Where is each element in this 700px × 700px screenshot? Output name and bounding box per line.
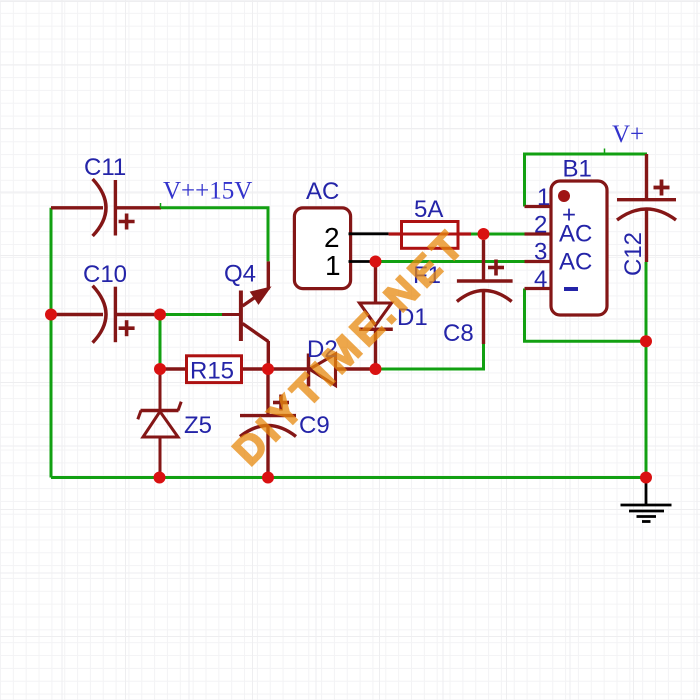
svg-text:Q4: Q4 xyxy=(224,261,256,288)
bridge rectifier B1 xyxy=(551,181,607,315)
connector AC xyxy=(294,208,350,289)
svg-text:B1: B1 xyxy=(563,156,592,183)
wire C8 bottom loop xyxy=(376,343,484,369)
capacitor C8 xyxy=(457,240,513,344)
junction R15 right xyxy=(262,363,274,375)
capacitor C12 xyxy=(617,154,676,262)
svg-text:AC: AC xyxy=(306,178,339,205)
svg-text:Z5: Z5 xyxy=(184,412,212,439)
svg-text:C11: C11 xyxy=(84,154,126,181)
transistor Q4 xyxy=(222,261,268,369)
junction ground node xyxy=(640,472,652,484)
svg-text:AC: AC xyxy=(559,249,592,276)
junction AC pin1 node xyxy=(370,256,382,268)
pin 1 lead xyxy=(525,205,552,208)
svg-text:5A: 5A xyxy=(414,196,443,223)
svg-text:C12: C12 xyxy=(620,232,647,276)
junction C10 right xyxy=(154,309,166,321)
wire bottom rail xyxy=(51,476,646,479)
svg-text:C8: C8 xyxy=(443,320,474,347)
svg-text:V+: V+ xyxy=(612,121,644,148)
wire AC pin1 black xyxy=(349,260,376,263)
junction R15 left xyxy=(154,363,166,375)
diode D1 xyxy=(359,262,393,370)
junction C10 left xyxy=(45,309,57,321)
wire AC pin2 black xyxy=(349,232,389,235)
wire B1 pin1 to V+ xyxy=(525,154,648,207)
junction C9 bottom xyxy=(262,472,274,484)
zener diode Z5 xyxy=(138,369,181,478)
wire top rail green xyxy=(161,208,268,262)
wire AC1 to B1 pin3 xyxy=(376,260,525,263)
pin 3 lead xyxy=(525,260,552,263)
wire B1 pin4 loop xyxy=(525,289,647,342)
resistor R15 xyxy=(160,367,187,370)
wire C10 to Q4 base xyxy=(160,313,222,316)
fuse F1 xyxy=(389,222,471,249)
wire net tick V+ xyxy=(604,149,606,155)
capacitor C11 xyxy=(51,179,161,236)
svg-text:1: 1 xyxy=(325,250,341,281)
wire C12 down to ground xyxy=(645,262,648,478)
junction B1 pin4 loop xyxy=(640,335,652,347)
svg-text:V++15V: V++15V xyxy=(163,178,252,205)
wire fuse to B1 pin2 xyxy=(471,233,525,236)
pin 2 lead xyxy=(525,232,552,235)
svg-text:R15: R15 xyxy=(190,358,234,385)
wire net tick V++15V xyxy=(160,203,162,208)
junction fuse output xyxy=(478,228,490,240)
svg-text:AC: AC xyxy=(559,221,592,248)
capacitor C10 xyxy=(51,286,160,343)
capacitor C9 xyxy=(240,369,296,478)
svg-text:C10: C10 xyxy=(83,261,127,288)
pin 4 lead xyxy=(525,287,552,290)
ground xyxy=(621,483,672,522)
wire left vertical xyxy=(50,208,53,478)
diode D2 xyxy=(268,354,376,387)
junction D2 right xyxy=(370,363,382,375)
wire node to R15 xyxy=(159,315,162,370)
svg-text:2: 2 xyxy=(324,222,340,253)
junction Z5 bottom xyxy=(154,472,166,484)
